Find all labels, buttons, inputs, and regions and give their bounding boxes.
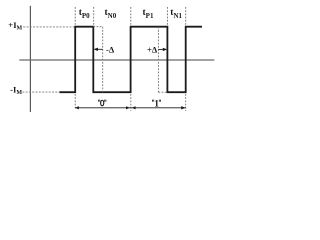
minus-delta arrow <box>94 48 103 51</box>
nominal pulse-1 bottom dashed extension <box>158 91 167 93</box>
bit-0 cell extension line <box>74 94 76 108</box>
zero-current axis <box>19 59 214 61</box>
nominal pulse-1 trailing edge dashed <box>157 27 159 93</box>
svg-text:1: 1 <box>154 100 159 110</box>
+IM dashed reference level <box>23 26 75 28</box>
y-axis <box>29 6 31 112</box>
svg-text:+Δ: +Δ <box>147 44 158 54</box>
tP0 right boundary dashed marker <box>93 7 95 26</box>
svg-text:+IM: +IM <box>8 20 22 31</box>
nominal pulse-0 trailing edge dashed <box>102 27 104 93</box>
svg-text:tN1: tN1 <box>170 8 182 20</box>
bit-1 cell extension line <box>185 94 187 111</box>
tP0 left boundary dashed marker <box>74 7 76 26</box>
svg-text:-IM: -IM <box>10 85 22 96</box>
tN1 right boundary dashed marker <box>185 7 187 26</box>
bit boundary extension line <box>130 94 132 111</box>
svg-text:-Δ: -Δ <box>106 45 115 55</box>
plus-delta arrow <box>158 48 167 51</box>
bit-0 dimension line <box>75 106 131 109</box>
label bit 0 <box>101 100 104 106</box>
bit-1 dimension line <box>131 106 186 109</box>
-IM dashed reference level <box>22 91 59 93</box>
nominal pulse-0 top dashed extension <box>93 26 102 28</box>
tP1 left boundary dashed marker <box>130 7 132 26</box>
svg-text:tN0: tN0 <box>105 8 117 20</box>
svg-text:tP1: tP1 <box>143 8 154 20</box>
tP1 right boundary dashed marker <box>166 7 168 26</box>
svg-text:tP0: tP0 <box>79 8 90 20</box>
waveform trace <box>60 27 203 93</box>
